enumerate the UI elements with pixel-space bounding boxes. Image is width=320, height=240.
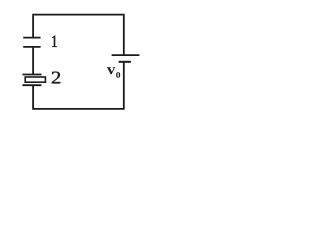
wire: right lower segment (battery short plate down to bottom-right corner) xyxy=(123,62,125,108)
capacitor C1 bottom plate xyxy=(23,46,40,48)
label 2 (crystal X2) xyxy=(52,72,60,84)
label 1 (capacitor C1) xyxy=(52,36,57,47)
wire: left middle segment (capacitor 1 to crystal 2) xyxy=(32,47,34,75)
capacitor C1 top plate xyxy=(23,37,40,39)
crystal X2 body box xyxy=(25,77,45,82)
label v (battery voltage) xyxy=(107,67,115,74)
wire: right upper segment (top-right corner down to battery long plate) xyxy=(123,16,125,55)
crystal X2 top plate xyxy=(22,74,41,76)
battery V long plate xyxy=(112,54,140,56)
crystal X2 bottom plate xyxy=(22,84,41,86)
battery V short plate xyxy=(119,61,131,63)
wire: top side xyxy=(32,14,125,16)
label o (subscript of v) xyxy=(116,72,120,78)
wire: bottom side xyxy=(32,108,125,110)
wire: left lower segment (crystal 2 down to bottom-left corner) xyxy=(32,85,34,108)
wire: left upper segment (top-left corner down to capacitor 1) xyxy=(32,16,34,37)
